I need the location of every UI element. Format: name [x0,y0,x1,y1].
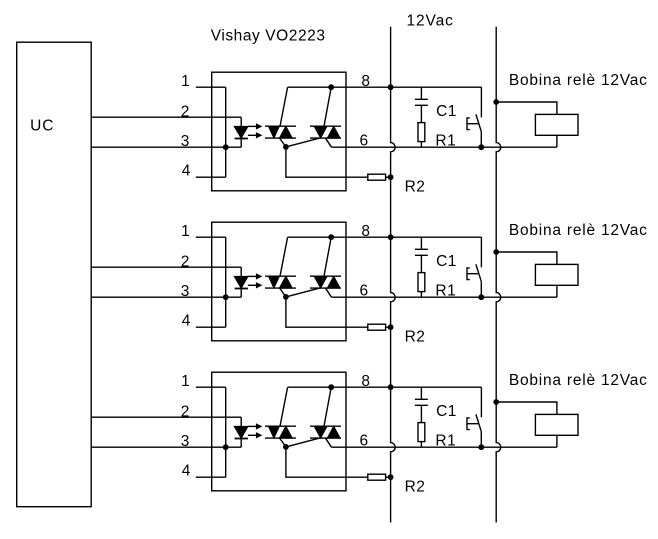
svg-text:3: 3 [181,133,190,150]
pin 1 stub [196,386,226,388]
switch contact [480,237,482,267]
junction main-triac / pin 8 [328,234,334,240]
wire main-triac bottom to pin 6 [326,438,332,447]
relay supply bus [496,27,501,523]
photo triac [265,425,296,427]
wire photo-triac top to pin 8 [280,237,288,276]
junction pin 3 / link [223,144,229,150]
svg-text:4: 4 [182,462,191,479]
svg-text:R1: R1 [435,433,456,450]
svg-text:UC: UC [30,118,54,135]
junction R2 / 12Vac bus [388,174,394,180]
coil bottom lead [556,135,558,147]
capacitor C1 [420,237,422,248]
resistor R1 [418,273,425,292]
wire UC to pin 2 [91,116,241,118]
svg-text:R2: R2 [405,178,426,195]
junction main-triac / pin 8 [328,384,334,390]
junction pin 3 / link [223,294,229,300]
svg-text:Bobina relè 12Vac: Bobina relè 12Vac [509,72,648,89]
pin 4 stub [196,326,226,328]
wire main-triac bottom to pin 6 [326,138,332,147]
junction relay feed / bus [493,249,499,255]
junction switch / pin 6 [478,144,484,150]
optocoupler U3 package box [212,372,346,491]
svg-text:12Vac: 12Vac [407,12,454,29]
gate wire to main triac [286,438,319,447]
resistor R2 [368,174,386,180]
wire photo-triac top to pin 8 [280,387,288,426]
junction photo-triac bottom [283,144,289,150]
junction main-triac / pin 8 [328,84,334,90]
LED D1 [240,117,242,126]
resistor R2 [368,324,386,330]
svg-text:4: 4 [182,312,191,329]
junction pin 3 / link [223,444,229,450]
wire photo-triac bottom [280,288,286,297]
junction pin 8 / 12Vac bus [388,234,394,240]
gate wire to main triac [286,138,319,147]
pin 6 line [332,146,557,148]
resistor R1 [418,123,425,142]
coil bottom lead [556,435,558,447]
resistor R2 [368,474,386,480]
svg-text:8: 8 [361,373,370,390]
wire main-triac top to pin 8 [324,87,331,126]
wire bus to relay coil [496,252,557,264]
LED D2 [240,267,242,276]
svg-text:6: 6 [360,282,369,299]
svg-text:6: 6 [360,132,369,149]
capacitor C1 [420,87,422,98]
wire UC to pin 3 [91,146,241,148]
main triac [310,125,341,127]
main triac [310,275,341,277]
wire bus to relay coil [496,102,557,114]
wire bus to relay coil [496,402,557,414]
junction R2 / 12Vac bus [388,324,394,330]
junction photo-triac bottom [283,444,289,450]
svg-text:1: 1 [181,73,190,90]
junction relay feed / bus [493,399,499,405]
optocoupler U2 package box [212,222,346,341]
switch contact [480,387,482,417]
svg-text:C1: C1 [436,403,457,420]
svg-text:8: 8 [361,223,370,240]
svg-text:3: 3 [181,433,190,450]
junction pin 8 / 12Vac bus [388,84,394,90]
junction relay feed / bus [493,99,499,105]
junction switch / pin 6 [478,294,484,300]
12Vac supply bus [391,27,396,523]
wire UC to pin 3 [91,446,241,448]
svg-text:R2: R2 [405,478,426,495]
svg-text:6: 6 [360,432,369,449]
pin 8 line [288,386,482,388]
light emission arrows [248,425,257,427]
microcontroller UC box [17,42,92,507]
wire main-triac top to pin 8 [324,387,331,426]
svg-text:2: 2 [181,253,190,270]
wire to R2 (pin 5) [286,297,368,327]
pins 1-3-4 vertical link [225,87,227,177]
pin 8 line [288,236,482,238]
optocoupler U1 package box [212,72,346,191]
light emission arrows [248,275,257,277]
gate wire to main triac [286,288,319,297]
relay coil [535,114,578,135]
LED D3 [240,417,242,426]
coil bottom lead [556,285,558,297]
svg-text:2: 2 [181,403,190,420]
pin 4 stub [196,476,226,478]
pin 6 line [332,446,557,448]
pin 4 stub [196,176,226,178]
light emission arrows [248,125,257,127]
junction photo-triac bottom [283,294,289,300]
wire UC to pin 2 [91,416,241,418]
svg-text:3: 3 [181,283,190,300]
relay coil [535,264,578,285]
wire UC to pin 3 [91,296,241,298]
svg-text:C1: C1 [436,253,457,270]
resistor R1 [418,423,425,442]
photo triac [265,125,296,127]
wire photo-triac top to pin 8 [280,87,288,126]
pins 1-3-4 vertical link [225,237,227,327]
pins 1-3-4 vertical link [225,387,227,477]
junction R2 / 12Vac bus [388,474,394,480]
svg-text:R1: R1 [435,283,456,300]
wire photo-triac bottom [280,138,286,147]
svg-text:1: 1 [181,373,190,390]
pin 1 stub [196,236,226,238]
svg-text:R1: R1 [435,133,456,150]
svg-text:C1: C1 [436,103,457,120]
switch contact [480,87,482,117]
junction pin 8 / 12Vac bus [388,384,394,390]
pin 6 line [332,296,557,298]
svg-text:1: 1 [181,223,190,240]
junction switch / pin 6 [478,444,484,450]
relay coil [535,414,578,435]
svg-text:8: 8 [361,73,370,90]
wire to R2 (pin 5) [286,147,368,177]
pin 1 stub [196,86,226,88]
svg-text:4: 4 [182,162,191,179]
wire UC to pin 2 [91,266,241,268]
wire to R2 (pin 5) [286,447,368,477]
wire main-triac bottom to pin 6 [326,288,332,297]
wire main-triac top to pin 8 [324,237,331,276]
svg-text:Vishay VO2223: Vishay VO2223 [211,28,326,45]
svg-text:2: 2 [181,103,190,120]
pin 8 line [288,86,482,88]
capacitor C1 [420,387,422,398]
main triac [310,425,341,427]
svg-text:Bobina relè 12Vac: Bobina relè 12Vac [509,222,648,239]
photo triac [265,275,296,277]
wire photo-triac bottom [280,438,286,447]
svg-text:Bobina relè 12Vac: Bobina relè 12Vac [509,372,648,389]
svg-text:R2: R2 [405,328,426,345]
